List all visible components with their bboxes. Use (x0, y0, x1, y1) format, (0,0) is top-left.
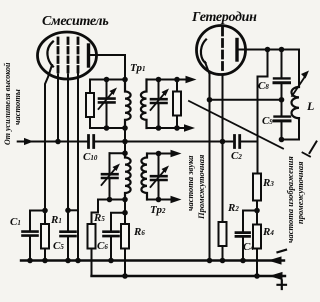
label R6 (134, 226, 145, 238)
resistor R3 (253, 174, 261, 201)
label L (307, 99, 314, 114)
node Tr1 primary coil bottom (122, 125, 128, 131)
node Tr1 secondary cap top (156, 77, 162, 83)
arrow Tr2 secondary bottom output (171, 196, 182, 204)
label C6 (97, 240, 108, 252)
tube U2 Гетеродин envelope (197, 26, 246, 75)
capacitor C9 (275, 115, 291, 117)
node cathode tap left (207, 97, 213, 103)
inductor (Tr2 primary coil) (125, 153, 131, 199)
node bus2 R6 (122, 273, 128, 279)
label R5 (94, 212, 105, 224)
input arrowhead (24, 138, 34, 145)
resistor (Tr1 secondary damping) (176, 80, 178, 129)
wire R6 riser (124, 200, 126, 225)
label C8 (258, 80, 269, 92)
label R4 (263, 226, 274, 238)
capacitor C2 (series) (235, 136, 240, 148)
capacitor C10 (series) (89, 136, 94, 148)
wire cathode tap line (210, 99, 282, 101)
label От усилителя высокой частоты (3, 63, 12, 145)
capacitor (Tr2 primary variable) (109, 153, 111, 199)
tube U1 cathode (47, 42, 53, 67)
wire U1 grid3 lead to ground bus (77, 74, 79, 261)
node Tr2 primary top riser (122, 150, 128, 156)
capacitor (Tr1 secondary variable) (158, 80, 160, 129)
minus sign (278, 250, 287, 253)
label Смеситель (42, 14, 108, 30)
wire tank bottom (282, 118, 300, 140)
tube U1 anode (87, 45, 90, 66)
wire input line middle segment (96, 141, 233, 143)
wire U2 anode line (239, 50, 300, 88)
node bus1 C6 (108, 258, 114, 264)
capacitor C6 (111, 213, 125, 261)
inductor L (292, 87, 300, 118)
node bus1 shield (75, 258, 81, 264)
capacitor C4 (243, 211, 257, 261)
node C9 bottom (279, 137, 285, 143)
tube U1 grid 2 (dashes) (67, 38, 70, 72)
inductor (Tr2 secondary coil) (141, 154, 147, 200)
node anode branch C8 (279, 47, 285, 53)
wire anode to R3 chain (jog) (258, 50, 268, 174)
node Tr2 primary coil bottom (122, 197, 128, 203)
label R1 (51, 214, 62, 226)
node bus1 C4 (240, 258, 246, 264)
arrow plus supply (269, 272, 283, 280)
node Tr1 primary coil top (122, 77, 128, 83)
node grid1/input (55, 139, 61, 145)
transformer Tr2 primary top wire (110, 152, 126, 154)
node bus1 C1 (27, 258, 33, 264)
node R6/C6 junction (122, 210, 128, 216)
inductor (Tr1 secondary coil) (141, 80, 147, 129)
node cathode tap right (C8/C9 mid) (279, 97, 285, 103)
node bus1 C5 (65, 258, 71, 264)
capacitor (Tr1 primary variable) (106, 80, 108, 99)
tube U1 Смеситель envelope (38, 32, 97, 79)
resistor R4 (253, 225, 261, 249)
node anode branch R3 (265, 47, 271, 53)
label C9 (262, 115, 273, 127)
transformer Tr1 primary top wire (90, 79, 125, 81)
wire Tr2 bottom to R5 (92, 200, 99, 225)
resistor R1 (44, 211, 46, 225)
node Tr1 secondary res bottom (174, 125, 180, 131)
label C4 (243, 241, 254, 253)
node Tr2 primary cap bottom (107, 197, 113, 203)
node R3/R4/C4 junction (254, 208, 260, 214)
node Tr1 secondary cap bottom (156, 125, 162, 131)
arrow Tr2 secondary top output (171, 150, 182, 158)
label Промежуточная частота звука (196, 155, 206, 219)
resistor R6 (121, 224, 129, 249)
arrow Tr1 secondary bottom output (184, 124, 195, 132)
node C1/R1 top junction (42, 208, 48, 214)
label C5 (53, 240, 64, 252)
label Тр1 (130, 62, 145, 74)
label R3 (263, 177, 274, 189)
node Tr2 secondary cap bottom (156, 197, 162, 203)
label C2 (231, 150, 242, 162)
resistor R5 (88, 224, 96, 249)
label C10 (83, 151, 97, 163)
transformer Tr1 primary bottom wire (90, 127, 125, 129)
node bus1 R2 (220, 258, 226, 264)
wire input line right segment (242, 141, 258, 143)
inductor (Tr1 primary coil) (125, 80, 131, 129)
wire riser Tr1 bottom to Tr2 top (124, 128, 126, 153)
ground bus (minus) (21, 259, 284, 261)
tube U2 cathode (201, 40, 206, 64)
leader line (video IF label) (189, 101, 283, 149)
wire U1 grid1 lead to input line (57, 75, 59, 142)
wire U1 anode to Tr1 top (90, 55, 125, 80)
wire R5 bottom to + bus (91, 249, 93, 277)
wire grid2/shield jog (68, 209, 78, 211)
label C1 (10, 216, 21, 228)
node C5 top (65, 208, 71, 214)
wire input line (RF in) left segment (18, 141, 87, 143)
wire U1 cathode lead (45, 65, 52, 211)
node Tr1 primary cap top (104, 77, 110, 83)
resistor R2 (219, 222, 227, 246)
node Tr1 primary cap bottom (104, 125, 110, 131)
node Tr1 secondary res top (174, 77, 180, 83)
wire U2 grid lead (222, 75, 224, 222)
node riser/input (122, 139, 128, 145)
arrow minus supply (268, 256, 282, 264)
wire Tr2 secondary top (147, 153, 172, 155)
node oscillator grid/input (220, 139, 226, 145)
wire Tr1 secondary bottom (147, 127, 187, 129)
label Гетеродин (192, 10, 257, 26)
node Tr2 secondary cap top (156, 151, 162, 157)
transformer Tr2 primary bottom wire (98, 199, 125, 201)
node bus2 R4 (254, 273, 260, 279)
node bus1 U2 cathode (207, 258, 213, 264)
wire Tr2 secondary bottom (147, 199, 172, 201)
label Промежуточная частота изображения (295, 162, 305, 225)
capacitor C5 (67, 210, 69, 260)
label Тр2 (150, 204, 165, 216)
wire U1 grid2 lead down (67, 75, 69, 211)
plus sign (278, 281, 287, 290)
arrow Tr1 secondary top output (186, 76, 197, 84)
label R2 (228, 202, 239, 214)
wire Tr1 secondary top (147, 79, 189, 81)
tube U2 anode (235, 40, 238, 61)
node bus1 R1 (42, 258, 48, 264)
capacitor C8 (281, 50, 283, 117)
capacitor C1 (30, 211, 45, 261)
resistor (Tr1 primary damping) (89, 80, 91, 94)
wire U2 cathode lead (205, 62, 210, 261)
wire R6 bottom to + bus (124, 249, 126, 277)
tube U1 grid 1 (dashes) (57, 38, 60, 72)
tube U1 grid 3 (dashes) (77, 38, 80, 72)
arrow variable L (292, 75, 306, 96)
tube U2 grid (dashes) (221, 28, 224, 70)
plus bus (92, 275, 286, 277)
capacitor (Tr2 secondary variable) (158, 154, 160, 200)
